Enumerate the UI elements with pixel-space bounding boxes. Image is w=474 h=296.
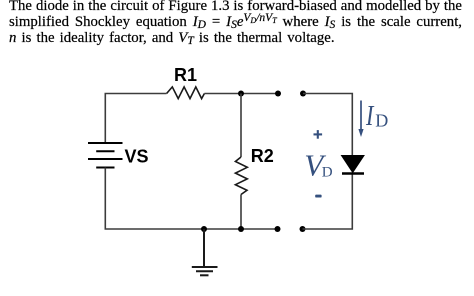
wire R2 branch top <box>240 94 242 158</box>
label minus <box>315 195 321 198</box>
resistor R2 <box>235 157 247 195</box>
wire top rail to terminal <box>204 93 278 95</box>
node junction top of R2 <box>238 91 244 97</box>
current arrow ID <box>358 101 363 138</box>
node terminal top-left <box>275 91 281 97</box>
svg-text:R1: R1 <box>174 65 197 85</box>
wire left branch bottom <box>105 168 277 230</box>
resistor R1 <box>167 87 205 99</box>
svg-text:I: I <box>365 101 375 132</box>
wire top rail left segment <box>105 94 166 144</box>
node terminal bottom-right <box>300 226 306 232</box>
node junction ground tap <box>201 226 207 232</box>
node terminal bottom-left <box>275 226 281 232</box>
svg-text:VS: VS <box>125 147 149 167</box>
node terminal top-right <box>300 91 306 97</box>
wire top right to diode branch <box>303 94 352 156</box>
diode D1 <box>342 156 365 173</box>
ground <box>192 229 218 275</box>
svg-text:D: D <box>375 110 388 130</box>
battery VS <box>88 143 123 168</box>
label ID <box>365 101 375 132</box>
wire bottom right segment <box>303 174 353 230</box>
svg-text:D: D <box>322 164 333 180</box>
label plus <box>314 130 323 139</box>
svg-text:R2: R2 <box>251 146 274 166</box>
node junction bottom of R2 <box>238 226 244 232</box>
wire R2 branch bottom <box>240 195 242 230</box>
